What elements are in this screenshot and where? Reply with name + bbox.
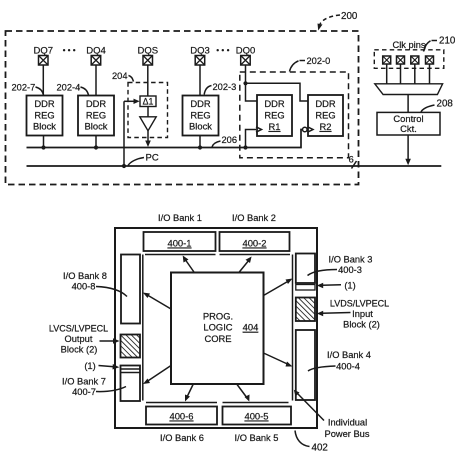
pad DQ4 [86, 46, 106, 66]
svg-text:210: 210 [439, 36, 456, 47]
svg-text:400-8: 400-8 [72, 282, 96, 292]
arrow core to bank 6 [185, 384, 193, 402]
svg-text:(1): (1) [84, 361, 95, 371]
power bus under bank 2 [220, 254, 291, 256]
node DQ0 junction [243, 81, 247, 85]
svg-text:Block: Block [85, 121, 108, 132]
DDR REG R1 [257, 95, 292, 136]
label I/O Bank 7 [62, 377, 126, 398]
svg-text:400-2: 400-2 [243, 238, 267, 249]
wire clock tap to R1 [246, 130, 257, 148]
svg-text:PC: PC [146, 153, 159, 164]
svg-text:202-0: 202-0 [307, 56, 331, 66]
ellipsis dots [63, 49, 76, 51]
svg-text:DQ3: DQ3 [190, 46, 210, 57]
wire D1 to triangle [147, 107, 149, 117]
power bus under bank 1 [145, 254, 216, 256]
label individual power bus [294, 390, 370, 439]
pad DQ7 [34, 46, 54, 66]
svg-text:R1: R1 [269, 121, 281, 132]
svg-text:Block: Block [189, 121, 212, 132]
svg-text:Clk pins: Clk pins [393, 40, 426, 50]
I/O bank 6 box 400-6 [146, 407, 217, 425]
DDR REG block 202-7 [27, 96, 63, 136]
svg-text:DQ0: DQ0 [236, 46, 256, 57]
svg-text:I/O Bank 8: I/O Bank 8 [63, 271, 107, 281]
svg-text:Output: Output [65, 334, 93, 344]
svg-text:LVCS/LVPECL: LVCS/LVPECL [49, 324, 108, 334]
wire mux to control [407, 95, 409, 113]
arrow core to bank 1 [183, 256, 195, 273]
svg-text:DDR: DDR [86, 98, 107, 109]
arrow core to bank 5 [237, 384, 250, 402]
svg-text:CORE: CORE [204, 333, 231, 344]
svg-text:Δ1: Δ1 [143, 97, 154, 107]
label 202-0 [290, 56, 331, 72]
clk pad 3 [411, 56, 419, 64]
label I/O Bank 3 [308, 255, 373, 276]
label (1) left [84, 361, 119, 371]
svg-text:200: 200 [341, 11, 358, 22]
I/O bank 8 box [121, 255, 140, 324]
svg-text:400-5: 400-5 [245, 411, 269, 422]
power bus above bank 5 [223, 402, 289, 404]
clk pad 1 [383, 56, 391, 64]
bus width 6 slash [349, 155, 357, 169]
svg-text:400-1: 400-1 [168, 238, 192, 249]
feedback wire from PC line into D1 [122, 99, 140, 168]
svg-text:I/O Bank 2: I/O Bank 2 [232, 213, 276, 223]
svg-text:400-7: 400-7 [72, 387, 96, 397]
block output stubs to bus 206 [43, 136, 45, 148]
clk pad wires [387, 64, 430, 84]
svg-text:202-4: 202-4 [57, 83, 81, 93]
svg-text:400-3: 400-3 [338, 265, 362, 275]
DDR REG R2 [308, 95, 343, 136]
svg-text:Power Bus: Power Bus [325, 429, 370, 439]
LVCS/LVPECL output hatched block [121, 335, 141, 358]
wire DQ0 to R1 D input [246, 83, 258, 101]
wire control to PC bus with arrowhead [405, 135, 411, 165]
arrow core to bank 7 [143, 366, 171, 385]
delay element D1 box [140, 96, 156, 107]
label LVCS/LVPECL output block [49, 324, 120, 355]
label 402 [295, 431, 328, 454]
wire DQ3 pad to block [199, 65, 201, 96]
label I/O Bank 8 [63, 271, 127, 297]
bus PC line [27, 165, 442, 167]
svg-text:REG: REG [86, 109, 106, 120]
svg-text:I/O Bank 4: I/O Bank 4 [327, 350, 371, 360]
svg-text:PROG.: PROG. [203, 311, 233, 322]
svg-text:DDR: DDR [264, 98, 285, 109]
arrow core to bank 2 [239, 257, 252, 273]
svg-text:I/O Bank 5: I/O Bank 5 [235, 433, 279, 443]
label PC [128, 153, 159, 166]
junction dots on bus 206 [41, 145, 45, 149]
svg-text:Individual: Individual [328, 418, 367, 428]
pad DQ3 [190, 46, 210, 66]
DDR REG block 202-3 [183, 96, 219, 136]
label 202-4 [57, 83, 89, 96]
R2 clock arrowhead [308, 127, 314, 132]
clock mux trapezoid [375, 84, 443, 95]
power bus above bank 6 [146, 402, 217, 404]
left power bus [142, 255, 144, 401]
I/O bank 5 box 400-5 [223, 407, 292, 425]
svg-text:Block: Block [33, 121, 56, 132]
svg-text:DDR: DDR [190, 98, 211, 109]
svg-text:I/O Bank 1: I/O Bank 1 [158, 213, 202, 223]
label 202-7 [12, 83, 44, 96]
I/O bank 7 box with strip [121, 366, 141, 402]
label Clk pins [393, 40, 427, 52]
label 200 leader arrow [318, 15, 341, 31]
wire DQ7 pad to block [42, 65, 44, 96]
label LVDS/LVPECL input block [317, 299, 389, 330]
I/O bank 4 box [296, 330, 315, 400]
I/O bank 1 box 400-1 [144, 232, 216, 251]
svg-text:DQS: DQS [138, 46, 159, 57]
label (1) right [317, 281, 356, 291]
wire DQS pad to delay [147, 65, 149, 96]
svg-text:Block (2): Block (2) [343, 320, 380, 330]
svg-text:400-6: 400-6 [170, 411, 194, 422]
arrow core to bank 8 [143, 293, 171, 310]
buffer triangle [140, 117, 156, 131]
svg-text:Block (2): Block (2) [61, 345, 98, 355]
svg-text:I/O Bank 7: I/O Bank 7 [62, 377, 106, 387]
label 206 [212, 135, 237, 147]
svg-text:208: 208 [437, 99, 454, 110]
pad DQS [138, 46, 159, 66]
svg-text:REG: REG [34, 109, 54, 120]
dashed box 202-0 [240, 72, 349, 158]
pad DQ0 [236, 46, 256, 66]
label I/O Bank 4 [308, 350, 371, 371]
svg-text:(1): (1) [344, 281, 355, 291]
svg-text:400-4: 400-4 [336, 361, 360, 371]
arrow core to bank 4 [264, 353, 293, 367]
svg-text:DQ7: DQ7 [34, 46, 54, 57]
R2 clock bubble [303, 127, 308, 132]
svg-text:202-7: 202-7 [12, 83, 36, 93]
svg-text:LVDS/LVPECL: LVDS/LVPECL [330, 299, 389, 309]
dashed box 204 delay cell [128, 83, 168, 138]
svg-text:Ckt.: Ckt. [400, 123, 417, 134]
svg-text:R2: R2 [320, 121, 332, 132]
svg-text:REG: REG [315, 109, 335, 120]
svg-text:6: 6 [349, 155, 354, 166]
label 202-3 [204, 82, 236, 95]
svg-text:DDR: DDR [315, 98, 336, 109]
clk pad 2 [397, 56, 405, 64]
DDR REG block 202-4 [78, 96, 114, 136]
prog logic core box 404 [171, 273, 264, 385]
label 204 [112, 71, 134, 82]
wire DQ0 to R2 D input [246, 83, 309, 101]
dashed enclosure 200 [6, 31, 359, 185]
wire triangle to bus with arrowhead [145, 131, 151, 147]
svg-text:204: 204 [112, 71, 128, 81]
R1 clock arrowhead [256, 127, 262, 132]
svg-text:202-3: 202-3 [213, 82, 237, 92]
svg-text:REG: REG [190, 109, 210, 120]
wire DQ4 pad to block [95, 65, 97, 96]
ellipsis dots [217, 49, 230, 51]
svg-text:I/O Bank 3: I/O Bank 3 [329, 255, 373, 265]
I/O bank 2 box 400-2 [220, 232, 290, 251]
svg-text:DDR: DDR [34, 98, 55, 109]
I/O bank 3 box with strip [296, 254, 315, 291]
svg-text:206: 206 [222, 135, 238, 145]
wire DQ0 pad down [245, 65, 247, 83]
svg-text:LOGIC: LOGIC [203, 322, 232, 333]
svg-text:402: 402 [312, 443, 328, 454]
svg-text:I/O Bank 6: I/O Bank 6 [160, 433, 204, 443]
control circuit box [377, 112, 440, 135]
dashed box 210 clk pins [374, 50, 444, 69]
chip outline 402 [115, 228, 317, 428]
arrow core to bank 3 [264, 279, 293, 296]
label 210 [425, 36, 456, 50]
label 208 [421, 99, 453, 113]
svg-text:Input: Input [352, 309, 373, 319]
svg-text:DQ4: DQ4 [86, 46, 106, 57]
svg-text:REG: REG [264, 109, 284, 120]
LVDS/LVPECL input hatched block [296, 298, 315, 322]
clk pad 4 [426, 56, 434, 64]
right power bus [292, 255, 294, 401]
svg-text:404: 404 [243, 322, 259, 333]
bus 206 (DQS strobe line) [27, 130, 303, 148]
